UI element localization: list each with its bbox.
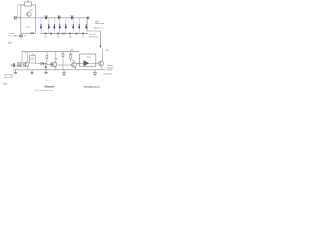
- wire supply TR5: [102, 49, 104, 62]
- svg-text:Fig. 4 RF switch circuit: Fig. 4 RF switch circuit: [35, 89, 54, 92]
- transistor TR2: [24, 62, 29, 67]
- svg-text:+9V: +9V: [105, 50, 109, 52]
- capacitor C7: [44, 33, 46, 35]
- svg-text:10n: 10n: [44, 37, 47, 39]
- capacitor C14: [12, 63, 14, 67]
- block B2: [30, 56, 36, 64]
- capacitor C16: [62, 52, 64, 70]
- svg-text:8 ohm: 8 ohm: [107, 70, 113, 72]
- wire top: [18, 4, 25, 6]
- svg-text:Switching Circuit: Switching Circuit: [84, 85, 100, 88]
- svg-text:10n: 10n: [69, 37, 72, 39]
- wire stage3: [58, 64, 72, 66]
- svg-text:100p: 100p: [57, 15, 61, 17]
- diode D6: [72, 18, 74, 34]
- wire opamp in: [76, 62, 83, 64]
- wire input: [15, 64, 17, 66]
- capacitor C12: [75, 33, 77, 35]
- crystal X1: [25, 2, 32, 6]
- diode D9: [41, 62, 43, 65]
- capacitor C1: [14, 16, 16, 20]
- svg-text:10k: 10k: [32, 54, 35, 56]
- svg-text:Meter line: Meter line: [94, 27, 102, 30]
- input block B1: [17, 62, 23, 66]
- capacitor C11: [68, 33, 70, 35]
- capacitor C4: [57, 17, 59, 20]
- svg-text:Volt Check: Volt Check: [89, 35, 98, 38]
- diode D2: [48, 18, 50, 34]
- ground G5: [45, 70, 47, 73]
- capacitor C2: [20, 33, 22, 35]
- capacitor C13: [81, 33, 83, 35]
- capacitor C6: [87, 17, 89, 19]
- diode D1: [40, 18, 42, 34]
- svg-text:Meter Line: Meter Line: [95, 22, 104, 25]
- capacitor C15: [45, 64, 47, 67]
- capacitor C5: [70, 17, 72, 20]
- label 25c: [31, 32, 35, 34]
- svg-text:0.3W max: 0.3W max: [104, 74, 113, 76]
- transistor TR1: [27, 12, 32, 17]
- op-amp U1: [84, 60, 90, 66]
- wire dc down: [100, 31, 102, 48]
- node stub label: [46, 80, 47, 81]
- svg-text:10n: 10n: [57, 37, 60, 39]
- dc arrow terminal: [100, 46, 102, 48]
- ground G4: [31, 70, 33, 73]
- svg-text:100p: 100p: [44, 15, 48, 17]
- capacitor C9: [56, 33, 58, 35]
- wire emitter TR2: [27, 67, 29, 70]
- wire bias: [21, 52, 23, 63]
- wire base TR3: [46, 63, 52, 65]
- svg-text:(a): (a): [8, 41, 11, 45]
- svg-text:10n: 10n: [81, 37, 84, 39]
- node B: [45, 63, 46, 64]
- svg-text:10n: 10n: [24, 36, 27, 38]
- diode D3: [53, 18, 55, 34]
- op-amp box: [80, 54, 96, 66]
- resistor R5: [70, 52, 72, 61]
- transistor TR4: [72, 62, 77, 67]
- svg-text:+9V: +9V: [70, 50, 74, 52]
- capacitor C8: [49, 33, 51, 35]
- node rail tick: [24, 52, 26, 54]
- wire detector: [36, 63, 46, 65]
- wire opamp out: [89, 62, 98, 64]
- svg-text:100p: 100p: [70, 15, 74, 17]
- wire: [17, 5, 19, 18]
- ground G3: [15, 70, 17, 73]
- diode D4: [59, 18, 61, 34]
- ground rail: [13, 69, 105, 71]
- wire dc out: [88, 30, 101, 32]
- wire emitter TR3: [55, 67, 57, 70]
- wire collector TR2: [27, 52, 29, 63]
- svg-text:Detector: Detector: [45, 85, 55, 88]
- input terminal: [11, 65, 12, 66]
- capacitor C3: [44, 17, 46, 20]
- ground G1: [63, 70, 65, 73]
- svg-text:(b): (b): [4, 81, 7, 85]
- diode D8: [85, 18, 87, 34]
- wire emitter TR5: [101, 66, 103, 70]
- node C: [78, 63, 79, 64]
- bottom rail: [41, 33, 88, 35]
- top rail: [41, 17, 88, 19]
- transistor TR3: [51, 62, 54, 66]
- +9V rail: [22, 51, 80, 53]
- oscillator module box: [21, 5, 36, 33]
- node A: [19, 17, 20, 18]
- svg-text:25c 3MHz: 25c 3MHz: [9, 36, 18, 38]
- wire collector TR3: [55, 52, 57, 63]
- wire mid: [13, 17, 41, 19]
- capacitor C10: [62, 33, 64, 35]
- transistor TR5: [99, 61, 104, 66]
- resistor R4: [46, 52, 48, 65]
- wire emitter TR4: [75, 67, 77, 70]
- ground G2: [94, 70, 96, 73]
- diode D5: [65, 18, 67, 34]
- crystal top tick: [27, 0, 29, 2]
- diode D7: [78, 18, 80, 34]
- svg-text:(say 0.5V): (say 0.5V): [4, 77, 13, 79]
